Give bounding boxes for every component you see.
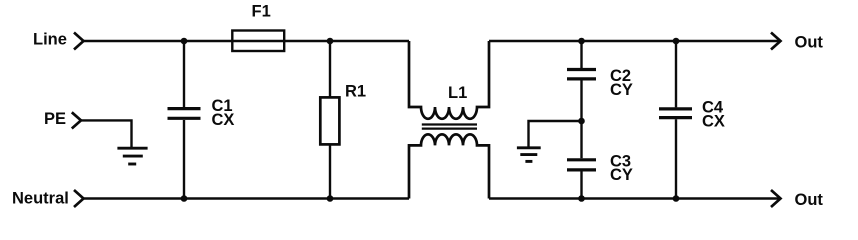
wire PE to ground [81,120,132,147]
wire bottom rail right [489,197,779,199]
capacitor C4 [659,99,725,131]
junction mid-CY [578,118,585,125]
inductor L1 common-mode choke [409,41,489,199]
junction top-R1 [327,38,334,45]
wire top rail left [84,40,410,42]
wire C2-C3 middle lead [580,81,582,159]
junction top-C2 [578,38,585,45]
svg-text:CX: CX [702,113,725,131]
junction top-C4 [673,38,680,45]
wire R1 lower lead [329,144,331,198]
svg-text:R1: R1 [345,83,366,101]
wire R1 upper lead [329,41,331,97]
junction bottom-C4 [673,195,680,202]
svg-text:F1: F1 [252,3,271,21]
svg-text:L1: L1 [448,84,467,102]
svg-text:Out: Out [795,33,824,51]
resistor R1 [320,83,366,145]
svg-text:Out: Out [795,191,824,209]
wire mid junction to ground [529,121,582,147]
node Out bottom arrow [771,190,781,207]
wire top rail right [489,40,779,42]
node Out top arrow [771,33,781,50]
node Line input chevron [74,33,84,50]
junction bottom-R1 [327,195,334,202]
junction top-C1 [181,38,188,45]
node Neutral input chevron [74,190,84,207]
capacitor C2 [567,67,633,99]
junction bottom-C1 [181,195,188,202]
ground PE [117,148,147,164]
wire bottom rail left [84,197,410,199]
ground CY [517,148,541,162]
node PE input chevron [72,112,81,128]
svg-text:PE: PE [44,110,66,128]
wire C1 lower lead [183,120,185,199]
svg-text:CY: CY [610,81,633,99]
svg-text:CY: CY [610,166,633,184]
wire C2 upper lead [580,41,582,68]
wire C1 upper lead [183,41,185,107]
wire C4 lower lead [675,119,677,198]
wire C4 upper lead [675,41,677,107]
capacitor C3 [567,152,633,184]
fuse F1 [232,3,284,52]
junction bottom-C3 [578,195,585,202]
capacitor C1 [168,97,235,129]
svg-text:Line: Line [33,31,67,49]
svg-text:Neutral: Neutral [12,189,69,207]
wire C3 lower lead [580,172,582,199]
svg-text:CX: CX [212,111,235,129]
